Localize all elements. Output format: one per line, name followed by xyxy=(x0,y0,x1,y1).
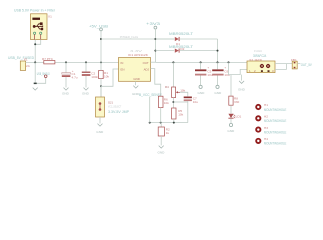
svg-text:GND: GND xyxy=(158,151,166,155)
trimmer R4 branch xyxy=(165,62,186,97)
shield gnd branch xyxy=(35,62,46,83)
bottom rail xyxy=(150,122,188,124)
svg-text:IN: IN xyxy=(121,61,124,65)
resistor R7B below rail xyxy=(158,123,170,146)
diode D1 xyxy=(155,32,217,46)
gnd stub jack xyxy=(241,75,243,81)
ground C6 xyxy=(216,85,219,88)
resistor R8 xyxy=(229,96,240,113)
svg-text:+3V3: +3V3 xyxy=(146,22,160,26)
shield testpoint circle xyxy=(44,75,47,78)
svg-text:LD1: LD1 xyxy=(236,114,242,118)
svg-text:H4: H4 xyxy=(264,137,268,141)
svg-text:330: 330 xyxy=(234,100,239,104)
junction xyxy=(34,43,36,45)
svg-text:GND: GND xyxy=(238,87,246,91)
jack branch wires xyxy=(229,62,248,74)
mounting hole H4 xyxy=(256,137,286,146)
USB trident icon xyxy=(33,23,43,30)
LED branch xyxy=(230,75,232,97)
svg-text:POWER_FLAG: POWER_FLAG xyxy=(120,35,139,39)
capacitor C7 xyxy=(180,92,198,122)
wire USB pins merge xyxy=(35,40,41,63)
wire to C7 bottom xyxy=(173,101,187,103)
svg-text:4.7u: 4.7u xyxy=(72,75,78,79)
capacitor C5 xyxy=(195,62,213,85)
junction trimmer-R5 node xyxy=(172,101,174,103)
svg-text:MOUNTINGHOLE: MOUNTINGHOLE xyxy=(264,142,286,146)
svg-text:H2: H2 xyxy=(264,115,268,119)
wire EN xyxy=(101,69,119,86)
svg-text:+5V_USB: +5V_USB xyxy=(89,24,108,28)
wiper arrow xyxy=(177,91,180,93)
svg-text:OUT: OUT xyxy=(143,61,149,65)
svg-text:GND: GND xyxy=(133,77,139,81)
switch contact circles xyxy=(260,64,271,68)
pin circles xyxy=(34,32,36,34)
top rail y=39 xyxy=(101,38,174,40)
svg-text:H1: H1 xyxy=(264,103,268,107)
wire trimmer bottom to R5 xyxy=(172,98,174,109)
SJ1 ground xyxy=(99,117,101,123)
svg-text:1k: 1k xyxy=(166,131,170,135)
supply symbol +3V3 xyxy=(154,26,157,29)
mounting hole H3 xyxy=(256,126,286,135)
output rail y=62.4 xyxy=(155,61,247,63)
junction C6 tap xyxy=(217,61,219,63)
junction trimmer tap xyxy=(172,61,174,63)
junction top rail left xyxy=(100,38,102,40)
resistor R7 (PTC) xyxy=(42,57,55,64)
wire supply down xyxy=(100,31,102,63)
svg-text:GND: GND xyxy=(62,91,70,95)
ground C5 xyxy=(199,85,202,88)
junction D1 branch xyxy=(154,38,156,40)
svg-text:10k: 10k xyxy=(180,88,185,92)
wire diodes merge down xyxy=(217,39,219,62)
wire main rail y=62.4 xyxy=(26,61,119,63)
svg-text:10k: 10k xyxy=(178,112,183,116)
junction C1 tap xyxy=(65,61,67,63)
ground C2 xyxy=(84,88,89,91)
resistor R6 xyxy=(158,96,169,122)
mounting hole H1 xyxy=(256,103,286,112)
svg-text:ADJ: ADJ xyxy=(144,68,150,72)
IC1 regulator xyxy=(119,49,151,81)
svg-text:IC1 AP2112K: IC1 AP2112K xyxy=(128,53,149,57)
svg-text:MOUNTINGHOLE: MOUNTINGHOLE xyxy=(264,108,286,112)
jack output wires xyxy=(275,63,292,65)
svg-text:GND: GND xyxy=(214,91,222,95)
svg-text:EN: EN xyxy=(121,68,125,72)
svg-text:GND: GND xyxy=(82,91,90,95)
ground chevron below bar xyxy=(33,88,38,91)
diode D2 xyxy=(155,45,217,53)
ground LED xyxy=(229,123,232,126)
svg-text:D2: D2 xyxy=(180,47,184,51)
svg-text:USB 5.0V Power In + Filter: USB 5.0V Power In + Filter xyxy=(14,9,56,13)
svg-text:100n: 100n xyxy=(91,75,98,79)
svg-text:H3: H3 xyxy=(264,126,268,130)
svg-text:VCC_SELECT: VCC_SELECT xyxy=(108,104,121,108)
junction R5 bottom xyxy=(173,122,175,124)
svg-text:USB_5V_FUSED: USB_5V_FUSED xyxy=(8,56,35,60)
svg-text:MBR0520LT: MBR0520LT xyxy=(169,32,193,36)
junction rail xyxy=(34,61,36,63)
capacitor C1 xyxy=(62,62,78,87)
wire ADJ to R6 xyxy=(151,69,161,97)
svg-text:OUT_5V: OUT_5V xyxy=(301,63,313,67)
connector X2 jack xyxy=(247,49,275,73)
svg-text:10u: 10u xyxy=(193,100,198,104)
svg-text:2A: 2A xyxy=(26,64,31,68)
junction R6 bottom xyxy=(160,122,162,124)
mounting hole H2 xyxy=(256,115,286,124)
connector X1 (USB) xyxy=(31,14,53,40)
junction jack branch xyxy=(228,61,230,63)
junction R1 tap xyxy=(100,61,102,63)
junction C5 tap xyxy=(200,61,202,63)
gnd bar xyxy=(34,83,37,85)
svg-text:3.3V-5V JMP: 3.3V-5V JMP xyxy=(108,110,129,114)
svg-text:10k: 10k xyxy=(164,101,169,105)
wire 3v3 down to OUT xyxy=(154,29,156,62)
supply symbol +5V_USB xyxy=(100,28,103,31)
fuse F1 xyxy=(20,57,30,70)
svg-text:USB_SHIELD: USB_SHIELD xyxy=(37,72,50,76)
junction bottom rail label xyxy=(149,122,151,124)
capacitor C6 xyxy=(212,62,230,85)
junction C2 tap xyxy=(85,61,87,63)
svg-text:GND: GND xyxy=(198,91,206,95)
svg-text:R4: R4 xyxy=(165,85,169,89)
svg-text:MOUNTINGHOLE: MOUNTINGHOLE xyxy=(264,130,286,134)
IC1 gnd pin xyxy=(135,81,137,85)
svg-text:X1: X1 xyxy=(48,14,52,18)
junction D2 branch xyxy=(154,50,156,52)
SJ1 solder jumper xyxy=(96,86,130,117)
svg-text:F1: F1 xyxy=(24,57,28,61)
svg-text:10u: 10u xyxy=(224,73,229,77)
junction R1 bottom xyxy=(100,85,102,87)
svg-text:10k: 10k xyxy=(104,75,109,79)
ferrite FB1 xyxy=(291,58,300,69)
svg-text:PJ-102A: PJ-102A xyxy=(254,49,262,53)
resistor R1 xyxy=(99,62,110,97)
junction diode merge xyxy=(217,50,219,52)
capacitor C2 xyxy=(82,62,99,87)
ground C1 xyxy=(64,88,69,91)
svg-text:GND: GND xyxy=(227,129,235,133)
svg-text:GND: GND xyxy=(96,130,104,134)
LED LD1 xyxy=(228,114,241,124)
svg-text:10u: 10u xyxy=(207,73,212,77)
resistor R5 xyxy=(172,108,184,123)
svg-text:MOUNTINGHOLE: MOUNTINGHOLE xyxy=(264,119,286,123)
